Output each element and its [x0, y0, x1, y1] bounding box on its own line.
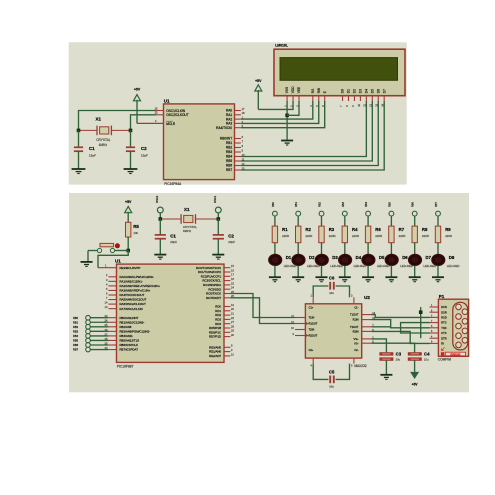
LED D3 — [315, 254, 343, 268]
wire RC6/TX to T1IN — [230, 294, 295, 318]
svg-text:LED-RED: LED-RED — [447, 264, 460, 268]
LCD pin 10 D3 stub — [357, 96, 361, 107]
capacitor C3 10u — [380, 352, 402, 375]
LCD pin 9 D2 stub — [351, 96, 355, 107]
wire D3 to ground — [321, 266, 323, 277]
svg-text:RB5/AN13/T1G: RB5/AN13/T1G — [120, 339, 140, 343]
svg-text:D6: D6 — [376, 89, 380, 93]
pin 13 RA7 stub — [105, 305, 117, 309]
svg-text:TXD: TXD — [441, 326, 446, 330]
LCD pin 4 RS stub — [309, 96, 313, 107]
LCD pin 6 E stub — [321, 96, 325, 107]
LED D8 — [432, 254, 460, 268]
pin 8 R2IN stub — [362, 328, 375, 332]
svg-text:C1: C1 — [89, 146, 95, 151]
svg-text:R8: R8 — [422, 227, 428, 232]
LCD pin 13 D6 stub — [375, 96, 379, 107]
svg-text:RB4/AN11: RB4/AN11 — [120, 334, 134, 338]
svg-text:15pF: 15pF — [141, 154, 148, 158]
svg-text:RB2: RB2 — [319, 202, 322, 207]
svg-text:RB4: RB4 — [226, 155, 232, 159]
pin 18 RC3 stub — [224, 277, 234, 281]
IC U2 MAX232 — [305, 295, 370, 368]
svg-text:RB5: RB5 — [388, 202, 391, 207]
push button — [88, 243, 128, 252]
svg-text:D2: D2 — [309, 255, 315, 260]
svg-text:VSS: VSS — [285, 87, 289, 93]
pin 9 RB3 stub — [235, 148, 244, 152]
svg-text:10u: 10u — [396, 358, 401, 362]
junction node X1-C1 — [77, 129, 81, 133]
pin 19 RD0 stub — [224, 303, 234, 307]
pin 13 R1IN stub — [362, 316, 376, 320]
LED D5 — [362, 254, 390, 268]
pin 40 RB7 stub — [105, 346, 117, 350]
pin 1 RA2 stub — [235, 116, 244, 120]
ground below D4 — [339, 277, 351, 282]
svg-text:10u: 10u — [424, 358, 429, 362]
resistor R9 220R — [435, 226, 452, 254]
terminal RB3 (left) — [73, 329, 108, 334]
pin 6 VS- stub — [362, 340, 375, 344]
resistor R2 220R — [296, 226, 313, 254]
P1 pin 1 DCD stub — [430, 305, 439, 307]
pin 36 RB3 stub — [105, 328, 117, 332]
svg-text:P1: P1 — [439, 294, 445, 299]
capacitor C2 20pF — [213, 219, 236, 254]
svg-text:RI: RI — [441, 342, 444, 346]
ground below D5 — [362, 277, 374, 282]
svg-text:+5V: +5V — [134, 88, 141, 92]
svg-text:D7: D7 — [426, 255, 432, 260]
LCD pin 7 D0 stub — [339, 96, 343, 107]
pin 28 RD5 stub — [224, 324, 234, 328]
svg-text:D5: D5 — [370, 89, 374, 93]
P1 pin 3 TXD stub — [430, 326, 439, 328]
pin 29 RD6 stub — [224, 329, 234, 333]
svg-text:C1-: C1- — [354, 305, 358, 309]
svg-text:DSR: DSR — [441, 310, 447, 314]
ground below D7 — [409, 277, 421, 282]
svg-text:DTR: DTR — [441, 336, 446, 340]
ground below C1 — [154, 255, 166, 260]
svg-text:RA2/AN2/VREF-/CVREF/C2IN+: RA2/AN2/VREF-/CVREF/C2IN+ — [120, 284, 161, 288]
pin 5 RA3 stub — [106, 287, 117, 291]
svg-text:10k: 10k — [133, 231, 138, 235]
terminal RB6 (bank) — [412, 202, 417, 227]
svg-text:RB2: RB2 — [226, 146, 232, 150]
svg-text:D1: D1 — [286, 255, 292, 260]
svg-text:+5V: +5V — [255, 79, 262, 83]
junction node VSS-VEE — [285, 114, 289, 118]
pin 7 T2OUT stub — [362, 323, 375, 327]
wire DCD-DSR-DTR tie — [420, 307, 422, 338]
svg-text:RB7: RB7 — [226, 168, 232, 172]
connector P1 COMPIM — [438, 294, 469, 362]
svg-text:R1IN: R1IN — [353, 318, 359, 322]
wire D8 to ground — [437, 266, 439, 277]
capacitor C6 10u — [313, 276, 349, 298]
svg-text:RA6/OSC2/CLKOUT: RA6/OSC2/CLKOUT — [120, 302, 147, 306]
svg-text:D5: D5 — [379, 255, 385, 260]
ground below D6 — [385, 277, 397, 282]
pin 12 RB6 stub — [235, 162, 246, 166]
pin 37 RB4 stub — [105, 332, 117, 336]
capacitor C5 10u — [313, 364, 349, 389]
svg-text:RA1/AN1/C12IN1-: RA1/AN1/C12IN1- — [120, 279, 143, 283]
wire R1IN to P1 TXD — [372, 320, 430, 328]
terminal RB2 (bank) — [319, 202, 324, 227]
LCD pin 1 VSS stub — [284, 96, 288, 107]
svg-text:PIC16F887: PIC16F887 — [117, 365, 134, 369]
svg-text:R2IN: R2IN — [353, 330, 359, 334]
LCD pin 3 VEE stub — [295, 96, 299, 107]
pin 3 C1- stub — [351, 294, 354, 304]
pin 2 RA0 stub — [106, 273, 117, 277]
LCD pin 14 D7 stub — [381, 96, 385, 107]
svg-text:RB3/AN9/PGM/C12IN2-: RB3/AN9/PGM/C12IN2- — [120, 329, 151, 333]
pin 3 RA4 stub — [235, 124, 244, 128]
svg-text:+5V: +5V — [412, 382, 419, 386]
svg-text:+5V: +5V — [125, 200, 132, 204]
terminal OSC1 — [213, 195, 221, 219]
svg-text:RB0: RB0 — [73, 316, 79, 320]
svg-text:C2-: C2- — [354, 348, 358, 352]
pin 17 RA0 stub — [235, 107, 246, 111]
pin 11 T1IN stub — [291, 314, 305, 318]
ground below D2 — [292, 277, 304, 282]
svg-text:RB6: RB6 — [73, 343, 79, 347]
wire D6 to ground — [390, 266, 392, 277]
svg-text:C2+: C2+ — [309, 348, 314, 352]
wire D2 to ground — [297, 266, 299, 277]
svg-text:X1: X1 — [184, 207, 190, 212]
pin 35 RB2 stub — [105, 323, 117, 327]
resistor R8 220R — [412, 226, 429, 254]
pin 8 RB2 stub — [235, 144, 244, 148]
P1 pin 6 DSR stub — [430, 310, 439, 312]
wire +5V to VDD — [258, 101, 293, 109]
wire OSC2 net (C2/X1 to U1 OSC2) — [131, 115, 157, 131]
LED D1 — [269, 254, 297, 268]
wire E to RA4 — [241, 101, 325, 128]
svg-text:T1OUT: T1OUT — [350, 313, 359, 317]
capacitor C1 20pF — [155, 219, 178, 254]
ground below C2 — [212, 255, 224, 260]
svg-text:RB7: RB7 — [73, 348, 79, 352]
svg-text:220R: 220R — [305, 234, 312, 238]
terminal RB5 (bank) — [388, 202, 393, 227]
ground below button — [81, 262, 93, 267]
pin 3 RA1 stub — [106, 278, 117, 282]
wire T1OUT to P1 RXD — [372, 315, 430, 318]
LCD pin 2 VDD stub — [289, 96, 293, 107]
terminal RB4 (bank) — [365, 202, 370, 227]
svg-text:CTS: CTS — [441, 331, 446, 335]
wire D1 to ground — [274, 266, 276, 277]
ERROR indicator — [441, 352, 466, 356]
svg-text:RA4/T0CKI: RA4/T0CKI — [216, 126, 232, 130]
svg-text:10u: 10u — [329, 384, 334, 388]
svg-text:C1+: C1+ — [309, 305, 314, 309]
svg-text:220R: 220R — [399, 234, 406, 238]
svg-text:RB2: RB2 — [73, 325, 79, 329]
P1 pin 4 DTR stub — [430, 336, 439, 338]
svg-text:C1: C1 — [170, 233, 176, 238]
svg-text:RS: RS — [311, 89, 315, 93]
pin 13 RB7 stub — [235, 166, 246, 170]
svg-text:RA3/AN3/VREF+/C1IN+: RA3/AN3/VREF+/C1IN+ — [120, 289, 151, 293]
svg-text:RB5: RB5 — [226, 159, 232, 163]
pin 15 RC0 stub — [224, 264, 234, 268]
LCD display LM016L — [274, 43, 405, 95]
wire RS to RA2 — [241, 101, 313, 119]
ground below LCD VSS — [281, 141, 293, 146]
pin 10 T2IN stub — [291, 326, 305, 330]
pin 8 RE0 stub — [224, 344, 233, 348]
pin 14 T1OUT stub — [362, 311, 376, 315]
pin 1 C1+ stub — [310, 294, 313, 304]
svg-text:D8: D8 — [449, 255, 455, 260]
svg-text:MCLR: MCLR — [166, 122, 176, 126]
svg-text:D4: D4 — [356, 255, 362, 260]
power +5V for LCD VDD — [255, 79, 262, 109]
resistor R5 — [126, 222, 140, 237]
crystal X1 8MHz — [160, 207, 218, 233]
junction node OSC1-X1-C2 — [217, 217, 221, 221]
pin 4 MCLR stub — [137, 119, 164, 123]
svg-text:CRYSTAL: CRYSTAL — [96, 138, 111, 142]
svg-text:COMPIM: COMPIM — [438, 358, 451, 362]
svg-text:VS+: VS+ — [354, 337, 359, 341]
svg-text:RB6/ICSPCLK: RB6/ICSPCLK — [120, 343, 139, 347]
svg-text:D1: D1 — [347, 89, 351, 93]
power +5V below C4 (down arrow) — [411, 372, 419, 386]
svg-text:RA4/T0CKI/C1OUT: RA4/T0CKI/C1OUT — [120, 293, 145, 297]
pin 17 RC2 stub — [224, 273, 234, 277]
svg-text:RB4: RB4 — [365, 202, 368, 207]
pin 23 RC4 stub — [224, 281, 234, 285]
svg-text:RA0/AN0/ULPWU/C12IN0-: RA0/AN0/ULPWU/C12IN0- — [120, 275, 154, 279]
svg-text:RD7/P1D: RD7/P1D — [209, 335, 221, 339]
svg-text:RB6: RB6 — [226, 164, 232, 168]
pin 4 RA2 stub — [106, 282, 117, 286]
pin 24 RC5 stub — [224, 286, 234, 290]
svg-text:RE3/MCLR/VPP: RE3/MCLR/VPP — [120, 266, 141, 270]
svg-text:RB3: RB3 — [73, 329, 79, 333]
pin 5 C2- stub — [351, 358, 354, 367]
svg-text:RB5: RB5 — [73, 339, 79, 343]
pin 6 RB0 stub — [235, 135, 244, 139]
svg-text:D4: D4 — [364, 89, 368, 93]
svg-text:4MHz: 4MHz — [99, 143, 108, 147]
wire D7 to RB7 — [241, 101, 384, 170]
svg-text:C2: C2 — [141, 146, 147, 151]
pin 4 C2+ stub — [310, 358, 313, 367]
svg-text:R2OUT: R2OUT — [309, 334, 318, 338]
svg-text:R5: R5 — [133, 224, 139, 229]
svg-text:220R: 220R — [375, 234, 382, 238]
pin 16 RC1 stub — [224, 268, 234, 272]
resistor R4 220R — [342, 226, 359, 254]
svg-text:R1OUT: R1OUT — [309, 322, 318, 326]
capacitor C1 — [74, 130, 96, 168]
P1 pin 8 CTS stub — [430, 331, 439, 333]
wire D7 to ground — [414, 266, 416, 277]
LED D4 — [339, 254, 367, 268]
pin 30 RD7 stub — [224, 333, 234, 337]
svg-text:LM016L: LM016L — [275, 43, 288, 47]
svg-text:DCD: DCD — [441, 305, 447, 309]
wire junction to MCLR pin1 — [98, 251, 128, 268]
svg-text:VDD: VDD — [291, 86, 295, 93]
svg-text:220R: 220R — [422, 234, 429, 238]
svg-text:RB0: RB0 — [272, 202, 275, 207]
resistor R1 220R — [272, 226, 289, 254]
svg-text:20pF: 20pF — [228, 240, 235, 244]
pin 12 R1OUT stub — [291, 320, 305, 324]
svg-text:R7: R7 — [399, 227, 405, 232]
resistor R3 220R — [319, 226, 336, 254]
svg-text:C6: C6 — [329, 276, 335, 281]
pin 34 RB1 stub — [105, 319, 117, 323]
svg-text:D2: D2 — [353, 89, 357, 93]
junction node R5-button-MCLR — [126, 249, 130, 253]
svg-text:RB2/AN8: RB2/AN8 — [120, 325, 132, 329]
svg-text:RB1/AN10/C12IN3-: RB1/AN10/C12IN3- — [120, 320, 145, 324]
svg-text:MAX232: MAX232 — [354, 364, 366, 368]
svg-text:R4: R4 — [352, 227, 358, 232]
svg-text:C2: C2 — [228, 233, 234, 238]
svg-text:15pF: 15pF — [89, 154, 96, 158]
svg-text:OSC1: OSC1 — [213, 195, 217, 203]
pin 18 RA1 stub — [235, 111, 246, 115]
LCD pin 8 D1 stub — [345, 96, 349, 107]
terminal RB1 (bank) — [295, 202, 300, 227]
svg-text:RXD: RXD — [441, 316, 447, 320]
power +5V for R5 — [125, 200, 132, 222]
svg-text:220R: 220R — [352, 234, 359, 238]
junction node OSC2-X1-C1 — [159, 217, 163, 221]
svg-text:PIC16F84A: PIC16F84A — [164, 182, 182, 186]
svg-text:U1: U1 — [115, 258, 121, 263]
svg-text:D6: D6 — [402, 255, 408, 260]
svg-text:20pF: 20pF — [170, 240, 177, 244]
svg-text:U1: U1 — [164, 99, 170, 104]
LCD pin 11 D4 stub — [363, 96, 367, 107]
terminal RB0 (left) — [73, 315, 108, 320]
wire D4 to RB4 — [241, 101, 366, 157]
pin 14 RA6 stub — [105, 301, 117, 305]
svg-text:220R: 220R — [329, 234, 336, 238]
svg-text:R3: R3 — [329, 227, 335, 232]
ground below D8 — [432, 277, 444, 282]
pin 22 RD3 stub — [224, 316, 234, 320]
pin 2 RA3 stub — [235, 120, 244, 124]
pin 27 RD4 stub — [224, 320, 234, 324]
terminal RB1 (left) — [73, 320, 108, 325]
svg-text:D3: D3 — [359, 89, 363, 93]
LED D6 — [385, 254, 413, 268]
svg-text:RB7: RB7 — [435, 202, 438, 207]
pin 33 RB0 stub — [105, 314, 117, 318]
pin 1 RE3/MCLR stub — [98, 264, 117, 268]
P1 pin 9 RI stub — [430, 342, 439, 344]
svg-text:OSC2: OSC2 — [155, 195, 159, 203]
P1 pin 7 RTS stub — [430, 321, 439, 323]
capacitor C2 — [126, 130, 148, 168]
svg-text:220R: 220R — [282, 234, 289, 238]
svg-text:D0: D0 — [341, 89, 345, 93]
pin 20 RD1 stub — [224, 307, 234, 311]
wire VS- to C4 — [372, 343, 415, 352]
svg-text:VS-: VS- — [354, 341, 358, 345]
svg-text:VEE: VEE — [297, 87, 301, 93]
pin 21 RD2 stub — [224, 312, 234, 316]
pin 16 OSC1 stub — [155, 106, 164, 110]
svg-text:RB3: RB3 — [226, 150, 232, 154]
pin 9 RE1 stub — [224, 348, 233, 352]
svg-text:CRYSTAL: CRYSTAL — [183, 225, 197, 229]
svg-text:220R: 220R — [445, 234, 452, 238]
svg-text:RC7/RX/DT: RC7/RX/DT — [206, 296, 221, 300]
svg-text:RB0/AN12/INT: RB0/AN12/INT — [120, 316, 139, 320]
wire VEE to VSS node — [287, 101, 299, 115]
wire D4 to ground — [344, 266, 346, 277]
svg-text:C5: C5 — [329, 369, 335, 374]
wire RC7/RX to R1OUT — [230, 298, 295, 324]
LED D2 — [292, 254, 320, 268]
svg-text:C3: C3 — [396, 352, 402, 357]
capacitor C4 10u — [408, 352, 430, 373]
pin 7 RB1 stub — [235, 139, 244, 143]
svg-text:X1: X1 — [96, 117, 102, 122]
wire D5 to ground — [367, 266, 369, 277]
terminal RB5 (left) — [73, 338, 108, 343]
terminal RB2 (left) — [73, 325, 108, 330]
LED D7 — [408, 254, 436, 268]
ground below D1 — [269, 277, 281, 282]
resistor R6 220R — [365, 226, 382, 254]
svg-text:E: E — [323, 91, 327, 93]
pin 15 OSC2 stub — [155, 111, 164, 115]
svg-text:RB3: RB3 — [342, 202, 345, 207]
wire R2IN to P1 RI — [372, 331, 430, 343]
wire button to ground — [87, 251, 89, 262]
svg-text:RA7/OSC1/CLKIN: RA7/OSC1/CLKIN — [120, 307, 143, 311]
terminal RB7 (left) — [73, 347, 108, 352]
ground below C2 — [124, 169, 138, 174]
svg-text:10u: 10u — [329, 291, 334, 295]
svg-text:T2IN: T2IN — [309, 328, 315, 332]
wire VS+ to C3 — [372, 339, 387, 353]
svg-text:RB7/ICSPDAT: RB7/ICSPDAT — [120, 348, 139, 352]
svg-text:RW: RW — [317, 88, 321, 93]
pin 10 RB4 stub — [235, 153, 246, 157]
pin 9 R2OUT stub — [293, 332, 306, 336]
wire T2OUT — [372, 326, 391, 328]
microcontroller U1 PIC16F887 — [115, 258, 224, 368]
svg-text:ERROR: ERROR — [450, 352, 460, 356]
svg-text:8MHz: 8MHz — [183, 229, 192, 233]
pin 38 RB5 stub — [105, 337, 117, 341]
terminal RB0 (bank) — [272, 202, 277, 227]
svg-text:R6: R6 — [375, 227, 381, 232]
LCD pin 5 RW stub — [315, 96, 319, 107]
svg-text:RB1: RB1 — [226, 141, 232, 145]
pin 11 RB5 stub — [235, 157, 245, 161]
wire D5 to RB5 — [241, 101, 372, 161]
